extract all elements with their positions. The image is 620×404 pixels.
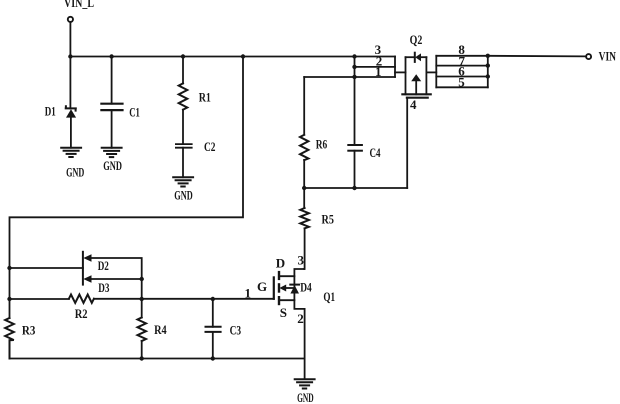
svg-text:R4: R4	[154, 322, 167, 337]
svg-text:S: S	[280, 305, 287, 320]
svg-text:C2: C2	[204, 139, 216, 154]
svg-text:1: 1	[244, 285, 251, 300]
svg-text:5: 5	[458, 75, 465, 90]
svg-text:GND: GND	[103, 158, 122, 173]
svg-text:GND: GND	[174, 188, 192, 203]
node out-pin7	[486, 63, 490, 67]
node R2-R4	[140, 297, 144, 301]
node left-D2D3	[7, 266, 11, 270]
drain vertical	[425, 57, 427, 94]
diode D1	[66, 106, 76, 117]
wire drain lead	[279, 269, 304, 276]
channel segment middle	[278, 284, 280, 291]
node D3-R4	[140, 277, 144, 281]
channel segment top	[278, 272, 280, 279]
svg-text:R2: R2	[75, 306, 88, 321]
wire bottom rail	[10, 358, 305, 360]
svg-text:GND: GND	[66, 164, 84, 179]
wire R2 right to gate	[94, 298, 274, 300]
resistor R6	[300, 135, 308, 160]
svg-text:G: G	[257, 279, 267, 294]
ground C2	[173, 177, 193, 186]
svg-text:2: 2	[297, 311, 304, 326]
ground Q1	[295, 379, 315, 388]
wire C1 top	[111, 57, 113, 104]
wire C4 bottom	[354, 151, 356, 188]
source vertical	[405, 57, 407, 94]
wire feedback drop	[10, 57, 244, 319]
wire C2 bottom	[182, 148, 184, 178]
node R4-rail	[140, 356, 144, 360]
terminal VIN_L	[68, 17, 73, 22]
node C4-row	[352, 186, 356, 190]
resistor R3	[5, 318, 14, 359]
node out-pin6	[486, 74, 490, 78]
ground C1	[102, 148, 122, 157]
substrate arrow	[285, 287, 294, 289]
wire Q2 right stub	[426, 71, 436, 73]
svg-text:R1: R1	[199, 89, 211, 104]
capacitor C4	[348, 145, 362, 151]
substrate arrow	[411, 74, 421, 81]
resistor R5	[300, 208, 309, 228]
wire D1 bottom	[70, 118, 72, 148]
svg-text:R6: R6	[316, 137, 328, 152]
capacitor C2	[176, 144, 192, 148]
wire R1 top	[182, 57, 184, 84]
svg-text:R5: R5	[322, 212, 335, 227]
node bus-rail	[352, 54, 356, 58]
wire D2 right	[92, 258, 142, 279]
channel segment bottom	[278, 297, 280, 304]
channel line	[402, 93, 430, 95]
node bus-pin1	[352, 75, 356, 79]
wire R2 left	[10, 298, 69, 300]
gate bar	[407, 97, 428, 99]
wire R6 bottom	[303, 160, 305, 208]
transistor Q2	[402, 53, 430, 98]
svg-text:R3: R3	[22, 322, 36, 337]
wire R5-R6 column top	[303, 77, 305, 135]
node R6-row	[302, 186, 306, 190]
top edge left	[406, 56, 415, 58]
svg-text:VIN: VIN	[599, 49, 617, 64]
diode D4	[290, 284, 299, 286]
svg-text:D1: D1	[45, 104, 56, 119]
resistor R4	[138, 318, 147, 342]
svg-text:D: D	[276, 256, 285, 271]
node left-R2	[7, 297, 11, 301]
svg-text:Q1: Q1	[323, 289, 335, 304]
wire R5 bottom	[303, 228, 305, 269]
node out-pin8	[486, 54, 490, 58]
svg-text:4: 4	[410, 97, 417, 112]
svg-text:VIN_L: VIN_L	[64, 0, 94, 10]
wire Q1 source down	[304, 309, 306, 379]
node C3-rail	[211, 356, 215, 360]
ground D1	[61, 148, 81, 157]
node rail-D1	[68, 54, 72, 58]
diode D3	[83, 275, 91, 283]
wire Q2 gate down	[406, 98, 408, 188]
wire C4 column	[354, 57, 356, 146]
wire body vertical	[293, 276, 295, 300]
svg-text:D3: D3	[98, 280, 110, 295]
connector pins 3-2-1 block	[304, 57, 395, 78]
wire R4 bottom	[141, 341, 143, 359]
wire D2D3 left	[10, 267, 83, 269]
node gate-C3	[211, 297, 215, 301]
capacitor C1	[101, 104, 122, 110]
diode D2	[83, 252, 92, 285]
top edge right	[421, 56, 426, 58]
wire D3 right	[92, 278, 142, 280]
wire R1-C2	[182, 110, 184, 144]
capacitor C3	[206, 299, 221, 359]
body diode bar	[414, 53, 416, 62]
wire gate row	[304, 187, 407, 189]
svg-text:D4: D4	[300, 280, 312, 295]
svg-text:GND: GND	[297, 390, 314, 404]
wire D1 top	[69, 57, 71, 109]
node rail-C1	[109, 54, 113, 58]
terminal VIN	[586, 54, 591, 59]
node rail-R1	[181, 54, 185, 58]
svg-text:C1: C1	[129, 105, 140, 120]
svg-text:Q2: Q2	[410, 32, 423, 47]
svg-text:C3: C3	[230, 323, 242, 338]
resistor R2	[69, 295, 94, 303]
connector pins 8-7-6-5 block	[436, 56, 488, 88]
transistor Q1	[274, 269, 305, 309]
svg-text:C4: C4	[370, 145, 381, 160]
node bus-pin2	[352, 65, 356, 69]
wire VIN_L drop	[69, 22, 71, 56]
wire C1 bottom	[111, 110, 113, 148]
resistor R1	[179, 83, 188, 109]
svg-text:D2: D2	[98, 258, 109, 273]
wire Q2 left stub	[395, 71, 406, 73]
body diode triangle	[415, 53, 421, 61]
svg-text:3: 3	[298, 253, 305, 268]
wire top rail	[70, 56, 395, 58]
node rail-drop	[241, 54, 245, 58]
wire VIN output	[488, 55, 586, 58]
wire R4 top	[141, 279, 143, 318]
wire source lead	[279, 300, 305, 309]
svg-text:1: 1	[375, 64, 382, 79]
gate bar	[273, 277, 275, 298]
